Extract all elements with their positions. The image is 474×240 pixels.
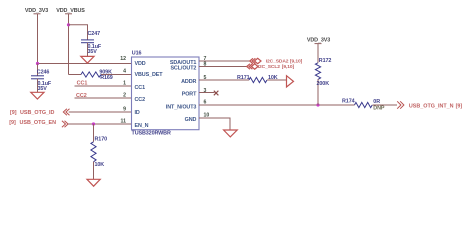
svg-text:SCL/OUT2: SCL/OUT2 bbox=[170, 65, 196, 71]
svg-text:VDD: VDD bbox=[135, 61, 146, 67]
svg-text:U16: U16 bbox=[132, 50, 142, 56]
svg-text:INT_N/OUT3: INT_N/OUT3 bbox=[166, 105, 197, 111]
svg-text:PORT: PORT bbox=[182, 91, 197, 97]
svg-text:[9]: [9] bbox=[10, 110, 17, 116]
svg-text:CC2: CC2 bbox=[135, 97, 146, 103]
svg-text:R171: R171 bbox=[237, 75, 250, 81]
svg-text:VDD_VBUS: VDD_VBUS bbox=[56, 8, 85, 14]
power symbol VDD_3V3 right bbox=[307, 38, 330, 44]
svg-text:3: 3 bbox=[204, 88, 207, 94]
wire VDD_3V3 vertical bbox=[37, 14, 39, 64]
wire SDA/OUT1 bbox=[199, 60, 250, 62]
resistor R174 bbox=[342, 99, 385, 112]
svg-text:ADDR: ADDR bbox=[181, 79, 196, 85]
wire ADDR to port bbox=[267, 79, 287, 81]
port USB_OTG_EN bbox=[9, 120, 68, 128]
svg-text:11: 11 bbox=[121, 118, 127, 124]
svg-text:R169: R169 bbox=[100, 75, 113, 81]
svg-text:9: 9 bbox=[123, 106, 126, 112]
ground under C247 bbox=[81, 56, 94, 63]
resistor R170 bbox=[91, 124, 107, 179]
wire GND pin bbox=[199, 118, 230, 130]
port USB_OTG_ID bbox=[10, 109, 70, 117]
svg-text:VDD_3V3: VDD_3V3 bbox=[307, 38, 330, 44]
capacitor C247 bbox=[81, 31, 102, 56]
IC U16 TUSB320RWBR bbox=[132, 50, 200, 136]
svg-text:ID: ID bbox=[135, 110, 140, 116]
svg-text:4: 4 bbox=[123, 69, 126, 75]
svg-text:[9,10]: [9,10] bbox=[290, 59, 303, 65]
svg-text:VBUS_DET: VBUS_DET bbox=[135, 72, 164, 78]
junction VDD_VBUS / C247 branch bbox=[67, 23, 70, 26]
power symbol VDD_3V3 bbox=[25, 8, 48, 14]
svg-text:200K: 200K bbox=[317, 81, 330, 87]
svg-text:[9,10]: [9,10] bbox=[282, 64, 295, 70]
svg-text:TUSB320RWBR: TUSB320RWBR bbox=[132, 130, 171, 136]
wire VDD_VBUS vertical bbox=[68, 14, 70, 75]
wire EN row bbox=[68, 123, 132, 125]
wire INT_N/OUT3 bbox=[199, 104, 355, 106]
capacitor C246 bbox=[31, 64, 52, 93]
svg-text:35V: 35V bbox=[88, 49, 98, 55]
ground at GND pin bbox=[224, 130, 238, 137]
svg-text:C246: C246 bbox=[37, 69, 50, 75]
svg-text:I2C_SDA2: I2C_SDA2 bbox=[266, 59, 289, 65]
svg-text:USB_OTG_ID: USB_OTG_ID bbox=[20, 110, 55, 116]
ground under R170 bbox=[87, 179, 100, 186]
port I2C_SDA2 bbox=[250, 58, 303, 64]
svg-text:[9]: [9] bbox=[456, 103, 463, 109]
svg-text:DNP: DNP bbox=[373, 105, 385, 111]
svg-text:2: 2 bbox=[123, 92, 126, 98]
wire SCL/OUT2 bbox=[199, 66, 247, 68]
resistor R169 bbox=[81, 69, 113, 81]
resistor R171 bbox=[237, 75, 278, 82]
wire ID row bbox=[69, 111, 132, 113]
wire R174 to port bbox=[373, 104, 398, 106]
wire CC2 bbox=[75, 97, 132, 99]
svg-text:GND: GND bbox=[185, 117, 197, 123]
junction INT / R172 bbox=[316, 103, 319, 106]
svg-text:10K: 10K bbox=[95, 162, 105, 168]
svg-text:C247: C247 bbox=[88, 31, 101, 37]
wire ADDR bbox=[199, 79, 249, 81]
no-connect X on PORT bbox=[214, 91, 219, 96]
svg-text:R170: R170 bbox=[95, 137, 108, 143]
svg-text:I2C_SCL2: I2C_SCL2 bbox=[258, 64, 280, 70]
svg-text:USB_OTG_INT_N: USB_OTG_INT_N bbox=[409, 103, 454, 109]
svg-text:[9]: [9] bbox=[9, 120, 16, 126]
wire VBUS_DET row bbox=[69, 74, 82, 76]
ground under C246 bbox=[31, 92, 44, 99]
wire PORT stub bbox=[199, 92, 215, 94]
svg-text:0R: 0R bbox=[373, 99, 380, 105]
wire branch to C247 bbox=[69, 25, 88, 40]
wire CC1 bbox=[75, 85, 132, 87]
port I2C_SCL2 bbox=[247, 64, 295, 70]
svg-text:1: 1 bbox=[123, 80, 126, 86]
svg-text:USB_OTG_EN: USB_OTG_EN bbox=[20, 120, 57, 126]
svg-text:12: 12 bbox=[120, 56, 126, 62]
junction VDD_3V3 / C246 bbox=[36, 62, 39, 65]
wire VDD rail to pin 12 bbox=[37, 63, 132, 65]
svg-text:CC1: CC1 bbox=[135, 85, 146, 91]
port ADDR triangle bbox=[287, 76, 294, 87]
svg-text:R172: R172 bbox=[319, 58, 332, 64]
junction EN / R170 bbox=[92, 122, 95, 125]
svg-text:VDD_3V3: VDD_3V3 bbox=[25, 8, 48, 14]
resistor R172 bbox=[315, 44, 331, 105]
svg-text:35V: 35V bbox=[38, 86, 48, 92]
power symbol VDD_VBUS bbox=[56, 8, 85, 14]
port USB_OTG_INT_N bbox=[397, 101, 462, 109]
svg-text:R174: R174 bbox=[342, 99, 355, 105]
svg-text:EN_N: EN_N bbox=[135, 123, 149, 129]
